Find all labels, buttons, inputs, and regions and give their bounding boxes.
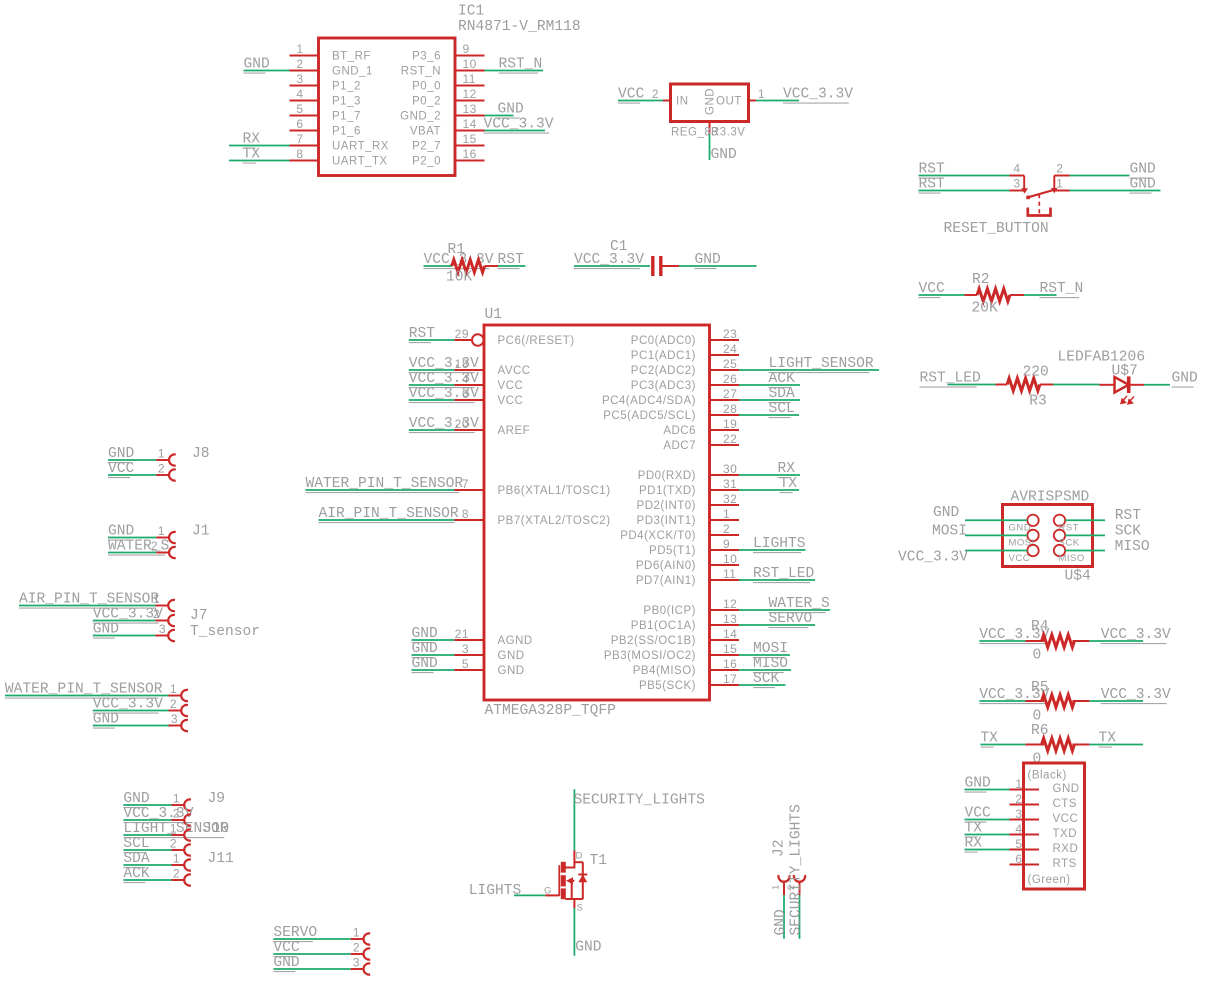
- wire net RST from U$4: [1065, 519, 1105, 521]
- wire net SDA from U1 pin 27: [739, 399, 800, 401]
- ic U1 right pin 27 PC4(ADC4/SDA): [710, 399, 740, 401]
- wire net VCC_3.3V to U1 at y=400: [409, 399, 455, 401]
- svg-text:VCC: VCC: [498, 395, 524, 407]
- svg-text:AVCC: AVCC: [498, 365, 531, 377]
- ic IC1 pin 13 GND_2: [455, 115, 485, 117]
- led U$7 anode lead: [1100, 384, 1115, 386]
- ic IC1 pin 12 P0_2: [455, 100, 485, 102]
- svg-text:P0_0: P0_0: [412, 81, 441, 93]
- svg-text:IC1: IC1: [458, 4, 485, 20]
- wire net MISO from U1 pin 16: [739, 669, 791, 671]
- wire net ACK to connector pin 2: [123, 879, 171, 881]
- switch S1 contact arrows: [1021, 188, 1028, 193]
- connector FTDI pin 5 RXD: [1010, 849, 1040, 851]
- ic IC1 pin 11 P0_0: [455, 85, 485, 87]
- connector pin 2: [169, 710, 182, 712]
- ic IC1 pin 3 P1_2: [290, 85, 319, 87]
- ic U1 right pin 11 PD7(AIN1): [710, 579, 740, 581]
- svg-text:TXD: TXD: [1053, 828, 1078, 840]
- wire net TX to IC1 pin 8: [229, 160, 290, 162]
- svg-text:GND: GND: [412, 626, 439, 642]
- wire net ACK from U1 pin 26: [739, 384, 800, 386]
- connector pin 1: [169, 695, 182, 697]
- wire R3 to LED: [1053, 384, 1100, 386]
- wire net GND to U1 at y=640: [412, 639, 455, 641]
- svg-text:1: 1: [771, 884, 782, 890]
- wire net WATER_PIN_T_SENSOR to connector pin 1: [5, 695, 169, 697]
- svg-text:2: 2: [173, 806, 180, 820]
- svg-text:WATER_S: WATER_S: [769, 596, 831, 612]
- svg-text:P1_3: P1_3: [332, 96, 361, 108]
- wire net VCC to FTDI pin 3: [965, 819, 1010, 821]
- connector pin 1: [172, 834, 185, 836]
- svg-text:RX: RX: [243, 132, 261, 148]
- svg-text:1: 1: [1015, 777, 1022, 791]
- svg-text:4: 4: [1013, 162, 1020, 176]
- wire net AIR_PIN_T_SENSOR to connector pin 1: [19, 605, 156, 607]
- svg-text:CTS: CTS: [1053, 798, 1078, 810]
- svg-text:GND_1: GND_1: [332, 66, 373, 78]
- resistor R2 body: [977, 289, 1010, 302]
- svg-text:10: 10: [463, 57, 477, 71]
- wire net SECURITY_LIGHTS vertical to T1 drain: [573, 789, 575, 850]
- svg-text:5: 5: [462, 657, 469, 671]
- svg-text:PD5(T1): PD5(T1): [649, 545, 696, 557]
- svg-text:J7: J7: [190, 608, 208, 624]
- ic U1 left pin 6 VCC: [455, 399, 485, 401]
- ic IC1 pin 5 P1_7: [290, 115, 319, 117]
- wire net SCK from U1 pin 17: [739, 684, 786, 686]
- wire net GND to U1 at y=655: [412, 654, 455, 656]
- wire net GND to U$4: [965, 519, 1027, 521]
- ic U1 right pin 30 PD0(RXD): [710, 474, 740, 476]
- wire net SDA to connector pin 1: [123, 864, 171, 866]
- connector U$4 pad circles GND/RST: [1027, 515, 1038, 526]
- resistor R5 lead right: [1072, 700, 1089, 702]
- svg-text:6: 6: [296, 117, 303, 131]
- transistor T1 source lead: [566, 898, 583, 900]
- svg-text:VCC_3.3V: VCC_3.3V: [409, 386, 479, 402]
- wire net RST_LED from U1 pin 11: [739, 579, 815, 581]
- ic U1 right pin 23 PC0(ADC0): [710, 339, 740, 341]
- svg-text:3: 3: [159, 622, 166, 636]
- svg-text:3: 3: [1015, 807, 1022, 821]
- svg-text:VCC_3.3V: VCC_3.3V: [409, 416, 479, 432]
- wire net VCC_3.3V to connector pin 2: [93, 710, 169, 712]
- svg-text:RST_N: RST_N: [401, 66, 441, 78]
- svg-text:1: 1: [296, 42, 303, 56]
- svg-text:PB3(MOSI/OC2): PB3(MOSI/OC2): [604, 650, 696, 662]
- wire net RX from U1 pin 30: [739, 474, 800, 476]
- ic U1 right pin 1 PD3(INT1): [710, 519, 740, 521]
- svg-text:17: 17: [723, 672, 737, 686]
- connector pin 1: [172, 864, 185, 866]
- svg-text:14: 14: [723, 627, 737, 641]
- ic U1 right pin 10 PD6(AIN0): [710, 564, 740, 566]
- svg-text:R3.3V: R3.3V: [711, 127, 745, 139]
- resistor R3 lead right: [1040, 384, 1053, 386]
- connector pin 1: [351, 938, 364, 940]
- ic U1 right pin 2 PD4(XCK/T0): [710, 534, 740, 536]
- connector FTDI pin 3 VCC: [1010, 819, 1040, 821]
- ic U1 left pin 4 VCC: [455, 384, 485, 386]
- ic U1 right pin 24 PC1(ADC1): [710, 354, 740, 356]
- svg-text:J8: J8: [192, 446, 210, 462]
- svg-text:AREF: AREF: [498, 425, 531, 437]
- svg-text:ADC7: ADC7: [663, 440, 696, 452]
- svg-text:GND: GND: [412, 641, 439, 657]
- svg-text:GND: GND: [933, 505, 960, 521]
- wire net GND from switch pin 1: [1070, 190, 1161, 192]
- svg-text:1: 1: [723, 507, 730, 521]
- connector J2 pin 1 stub: [783, 881, 785, 895]
- svg-text:PD2(INT0): PD2(INT0): [637, 500, 696, 512]
- svg-text:13: 13: [723, 612, 737, 626]
- transistor T1 body diode triangle: [578, 875, 587, 883]
- ic U1 right pin 15 PB3(MOSI/OC2): [710, 654, 740, 656]
- svg-text:P1_7: P1_7: [332, 111, 361, 123]
- wire net GND to IC1 pin 2: [244, 70, 290, 72]
- svg-text:1: 1: [158, 446, 165, 460]
- svg-text:25: 25: [723, 357, 737, 371]
- ic IC1 pin 14 VBAT: [455, 130, 485, 132]
- svg-text:0: 0: [1033, 648, 1042, 664]
- resistor R6 lead right: [1072, 744, 1089, 746]
- svg-text:11: 11: [463, 72, 476, 86]
- wire net VCC_3.3V from R5: [1089, 700, 1143, 702]
- svg-text:GND: GND: [1172, 371, 1199, 387]
- svg-text:19: 19: [723, 417, 737, 431]
- svg-text:S: S: [577, 903, 584, 914]
- svg-text:IN: IN: [676, 96, 689, 108]
- resistor R4 lead left: [1025, 640, 1044, 642]
- svg-text:SCL: SCL: [769, 401, 795, 417]
- svg-text:MISO: MISO: [753, 656, 788, 672]
- svg-text:R6: R6: [1031, 723, 1049, 739]
- svg-text:3: 3: [296, 72, 303, 86]
- ic U1 right pin 9 PD5(T1): [710, 549, 740, 551]
- svg-text:U$4: U$4: [1065, 569, 1092, 585]
- wire net MOSI to U$4: [965, 534, 1027, 536]
- wire net GND from C1: [679, 265, 757, 267]
- connector U$4 pad circles MOSI/SCK: [1027, 530, 1038, 541]
- svg-text:1: 1: [158, 524, 165, 538]
- connector pin 2: [156, 474, 169, 476]
- svg-text:TX: TX: [780, 476, 798, 492]
- connector pin 3: [169, 725, 182, 727]
- resistor R2 lead left: [965, 294, 978, 296]
- svg-text:VCC_3.3V: VCC_3.3V: [409, 356, 479, 372]
- svg-text:SECURITY_LIGHTS: SECURITY_LIGHTS: [789, 804, 805, 936]
- ic U1 right pin 14 PB2(SS/OC1B): [710, 639, 740, 641]
- svg-text:PC1(ADC1): PC1(ADC1): [631, 350, 696, 362]
- resistor R5 body: [1042, 695, 1075, 708]
- ic U1 right pin 12 PB0(ICP): [710, 609, 740, 611]
- svg-text:P1_2: P1_2: [332, 81, 361, 93]
- svg-text:TX: TX: [243, 147, 261, 163]
- svg-text:32: 32: [723, 492, 737, 506]
- ic U1 right pin 31 PD1(TXD): [710, 489, 740, 491]
- wire net VCC_3.3V to R1: [424, 265, 453, 267]
- connector FTDI pin 4 TXD: [1010, 834, 1040, 836]
- wire net GND from LED: [1144, 384, 1170, 386]
- svg-text:PC4(ADC4/SDA): PC4(ADC4/SDA): [602, 395, 696, 407]
- wire net GND to FTDI pin 1: [965, 789, 1010, 791]
- ic U1 left pin 29 PC6(/RESET): [455, 339, 472, 341]
- svg-text:SECURITY_LIGHTS: SECURITY_LIGHTS: [574, 792, 706, 808]
- svg-text:2: 2: [153, 607, 160, 621]
- svg-text:VCC_3.3V: VCC_3.3V: [409, 371, 479, 387]
- svg-text:MISO: MISO: [1115, 539, 1150, 555]
- connector pin 2: [351, 953, 364, 955]
- svg-text:PD7(AIN1): PD7(AIN1): [636, 575, 696, 587]
- svg-text:7: 7: [296, 132, 303, 146]
- svg-text:8: 8: [462, 507, 469, 521]
- ic IC1 pin 9 P3_6: [455, 55, 485, 57]
- ic IC1 pin 1 BT_RF: [290, 55, 319, 57]
- wire net SCL to connector pin 2: [123, 849, 171, 851]
- svg-text:GND: GND: [498, 102, 525, 118]
- svg-text:RST_LED: RST_LED: [753, 566, 815, 582]
- svg-text:24: 24: [723, 342, 737, 356]
- wire net TX to R6: [980, 744, 1025, 746]
- wire net GND from IC1 pin 13: [485, 115, 514, 117]
- svg-text:2: 2: [652, 87, 659, 101]
- svg-text:PB6(XTAL1/TOSC1): PB6(XTAL1/TOSC1): [498, 485, 611, 497]
- resistor R4 lead right: [1072, 640, 1089, 642]
- svg-text:1: 1: [1056, 177, 1063, 191]
- svg-text:1: 1: [353, 925, 360, 939]
- svg-text:5: 5: [1015, 837, 1022, 851]
- svg-text:1: 1: [170, 821, 177, 835]
- svg-text:P3_6: P3_6: [412, 51, 441, 63]
- ic IC1 pin 6 P1_6: [290, 130, 319, 132]
- svg-text:PC6(/RESET): PC6(/RESET): [498, 335, 575, 347]
- svg-text:MOSI: MOSI: [1009, 538, 1035, 549]
- ic U1 right pin 28 PC5(ADC5/SCL): [710, 414, 740, 416]
- svg-text:VCC_3.3V: VCC_3.3V: [898, 549, 968, 565]
- resistor R4 body: [1042, 635, 1075, 648]
- ic U1 left pin 7 PB6(XTAL1/TOSC1): [455, 489, 485, 491]
- svg-text:RST: RST: [498, 252, 525, 268]
- svg-text:5: 5: [296, 102, 303, 116]
- wire net WATER_S to connector pin 2: [108, 552, 156, 554]
- ic U1 right pin 19 ADC6: [710, 429, 740, 431]
- switch S1 actuator dashed line: [1038, 194, 1040, 215]
- svg-text:(Green): (Green): [1028, 874, 1071, 886]
- svg-text:LIGHTS: LIGHTS: [469, 883, 522, 899]
- svg-text:PB2(SS/OC1B): PB2(SS/OC1B): [611, 635, 696, 647]
- ic U1 left pin 3 GND: [455, 654, 485, 656]
- wire net VCC_3.3V to connector pin 2: [93, 620, 156, 622]
- svg-text:AGND: AGND: [498, 635, 533, 647]
- svg-text:J9: J9: [208, 791, 226, 807]
- transistor T1 channel bars: [561, 862, 566, 873]
- svg-text:RX: RX: [778, 461, 796, 477]
- connector J2 pin 1 arc: [778, 875, 789, 882]
- svg-text:P0_2: P0_2: [412, 96, 441, 108]
- svg-text:27: 27: [723, 387, 737, 401]
- svg-text:RXD: RXD: [1053, 843, 1079, 855]
- svg-text:GND: GND: [412, 656, 439, 672]
- ic U1 right pin 32 PD2(INT0): [710, 504, 740, 506]
- svg-text:0: 0: [1033, 752, 1042, 768]
- svg-text:UART_TX: UART_TX: [332, 156, 388, 168]
- svg-text:OUT: OUT: [716, 96, 742, 108]
- wire net RST_LED to R3: [948, 384, 996, 386]
- connector pin 1: [156, 459, 169, 461]
- svg-text:R3: R3: [1029, 393, 1047, 409]
- svg-text:MOSI: MOSI: [753, 641, 788, 657]
- connector U$4 body: [1003, 505, 1093, 567]
- connector pin 2: [172, 819, 185, 821]
- resistor R5 lead left: [1025, 700, 1044, 702]
- wire net RST to U1 pin 29: [409, 339, 455, 341]
- svg-text:29: 29: [455, 327, 469, 341]
- svg-text:VCC_3.3V: VCC_3.3V: [484, 117, 554, 133]
- svg-text:SERVO: SERVO: [769, 611, 813, 627]
- svg-text:ATMEGA328P_TQFP: ATMEGA328P_TQFP: [485, 703, 616, 719]
- svg-text:GND: GND: [695, 252, 722, 268]
- svg-text:15: 15: [723, 642, 737, 656]
- connector pin 2: [156, 552, 169, 554]
- svg-text:2: 2: [1015, 792, 1022, 806]
- svg-text:PD4(XCK/T0): PD4(XCK/T0): [620, 530, 696, 542]
- svg-text:PD0(RXD): PD0(RXD): [638, 470, 696, 482]
- svg-text:BT_RF: BT_RF: [332, 51, 371, 63]
- svg-text:PB1(OC1A): PB1(OC1A): [631, 620, 696, 632]
- svg-text:26: 26: [723, 372, 737, 386]
- transistor T1 body diode branch: [574, 861, 582, 863]
- wire net VCC_3.3V from regulator OUT: [756, 100, 799, 102]
- ic U1 body: [484, 325, 710, 700]
- led U$7 triangle: [1115, 377, 1129, 393]
- svg-text:U1: U1: [485, 307, 503, 323]
- svg-text:PC5(ADC5/SCL): PC5(ADC5/SCL): [603, 410, 696, 422]
- wire net LIGHTS to T1 gate: [514, 894, 545, 896]
- wire net VCC_3.3V to U$4: [965, 550, 1027, 552]
- svg-text:PC3(ADC3): PC3(ADC3): [631, 380, 696, 392]
- svg-text:4: 4: [1015, 822, 1022, 836]
- wire net TX from R6: [1089, 744, 1143, 746]
- svg-text:GND: GND: [1130, 177, 1157, 193]
- ic U1 left pin 20 AREF: [455, 429, 485, 431]
- wire net MISO from U$4: [1065, 550, 1105, 552]
- wire net VCC_3.3V from IC1 pin 14: [485, 130, 546, 132]
- svg-text:30: 30: [723, 462, 737, 476]
- svg-text:SDA: SDA: [769, 386, 796, 402]
- wire net LIGHTS from U1 pin 9: [739, 549, 806, 551]
- resistor R2 lead right: [1010, 294, 1024, 296]
- svg-text:2: 2: [158, 461, 165, 475]
- regulator GND pin: [709, 122, 711, 135]
- svg-text:TX: TX: [965, 821, 983, 837]
- svg-text:1: 1: [173, 791, 180, 805]
- svg-text:11: 11: [723, 567, 736, 581]
- resistor R1 lead right: [485, 265, 498, 267]
- wire net AIR_PIN_T_SENSOR to U1 pin 8: [319, 519, 455, 521]
- connector pin 1: [172, 804, 185, 806]
- svg-text:J10: J10: [203, 821, 229, 837]
- svg-text:3: 3: [462, 642, 469, 656]
- wire net SERVO to connector pin 1: [273, 938, 350, 940]
- ic IC1 pin 15 P2_7: [455, 145, 485, 147]
- wire net VCC to regulator IN: [618, 100, 663, 102]
- svg-text:VCC: VCC: [1009, 553, 1031, 564]
- svg-text:PD1(TXD): PD1(TXD): [639, 485, 696, 497]
- svg-text:9: 9: [463, 42, 470, 56]
- svg-text:PB0(ICP): PB0(ICP): [643, 605, 696, 617]
- svg-text:1: 1: [153, 592, 160, 606]
- svg-text:RST_N: RST_N: [499, 57, 543, 73]
- svg-text:GND: GND: [1130, 162, 1157, 178]
- resistor R1 body: [452, 260, 485, 273]
- svg-text:10K: 10K: [446, 270, 473, 286]
- wire net GND to J2 pin 1: [783, 895, 785, 939]
- wire regulator gnd down: [709, 134, 711, 160]
- led U$7 cathode bar: [1127, 376, 1131, 393]
- switch S1 vertical bars: [1023, 176, 1025, 191]
- svg-text:21: 21: [455, 627, 469, 641]
- wire net VCC_3.3V to R5: [979, 700, 1025, 702]
- ic IC1 pin 4 P1_3: [290, 100, 319, 102]
- svg-text:RTS: RTS: [1053, 858, 1077, 870]
- svg-text:J1: J1: [192, 524, 210, 540]
- connector pin 2: [156, 620, 169, 622]
- wire net VCC to connector pin 2: [273, 953, 350, 955]
- svg-text:GND_2: GND_2: [400, 111, 441, 123]
- svg-text:PB5(SCK): PB5(SCK): [639, 680, 696, 692]
- wire net TX to FTDI pin 4: [965, 834, 1010, 836]
- wire net VCC_3.3V to U1 at y=385: [409, 384, 455, 386]
- svg-text:PB7(XTAL2/TOSC2): PB7(XTAL2/TOSC2): [498, 515, 611, 527]
- ic U1 right pin 26 PC3(ADC3): [710, 384, 740, 386]
- svg-text:SCK: SCK: [753, 671, 780, 687]
- connector pin 1: [156, 605, 169, 607]
- svg-text:2: 2: [353, 940, 360, 954]
- svg-text:PB4(MISO): PB4(MISO): [633, 665, 696, 677]
- wire net GND to connector pin 1: [123, 804, 171, 806]
- resistor R3 body: [1007, 378, 1040, 391]
- connector pin 2: [172, 879, 185, 881]
- switch pin 3: [1010, 190, 1025, 192]
- wire net LIGHT_SENSOR from U1 pin 25: [739, 369, 879, 371]
- svg-text:20K: 20K: [972, 301, 999, 317]
- svg-text:GND: GND: [244, 57, 271, 73]
- svg-text:2: 2: [151, 539, 158, 553]
- svg-text:ACK: ACK: [769, 371, 796, 387]
- ic IC1 pin 7 UART_RX: [290, 145, 319, 147]
- regulator output pin 1: [749, 100, 757, 102]
- svg-text:VCC_3.3V: VCC_3.3V: [783, 87, 853, 103]
- svg-text:RST: RST: [1059, 523, 1080, 534]
- wire net VCC_3.3V to C1: [574, 265, 650, 267]
- switch pin 1: [1054, 190, 1069, 192]
- svg-text:RN4871-V_RM118: RN4871-V_RM118: [458, 19, 581, 35]
- svg-text:3: 3: [1013, 177, 1020, 191]
- svg-text:GND: GND: [711, 147, 738, 163]
- wire net GND to U1 at y=670: [412, 669, 455, 671]
- ic U1 right pin 16 PB4(MISO): [710, 669, 740, 671]
- svg-text:MOSI: MOSI: [932, 524, 967, 540]
- wire net SCK from U$4: [1065, 534, 1105, 536]
- svg-text:RST_N: RST_N: [1040, 281, 1084, 297]
- svg-text:6: 6: [1015, 852, 1022, 866]
- svg-text:T1: T1: [590, 853, 608, 869]
- wire net SECURITY_LIGHTS to J2 pin 2: [799, 895, 801, 939]
- svg-text:RST: RST: [1115, 508, 1142, 524]
- regulator IC2 body: [671, 84, 749, 122]
